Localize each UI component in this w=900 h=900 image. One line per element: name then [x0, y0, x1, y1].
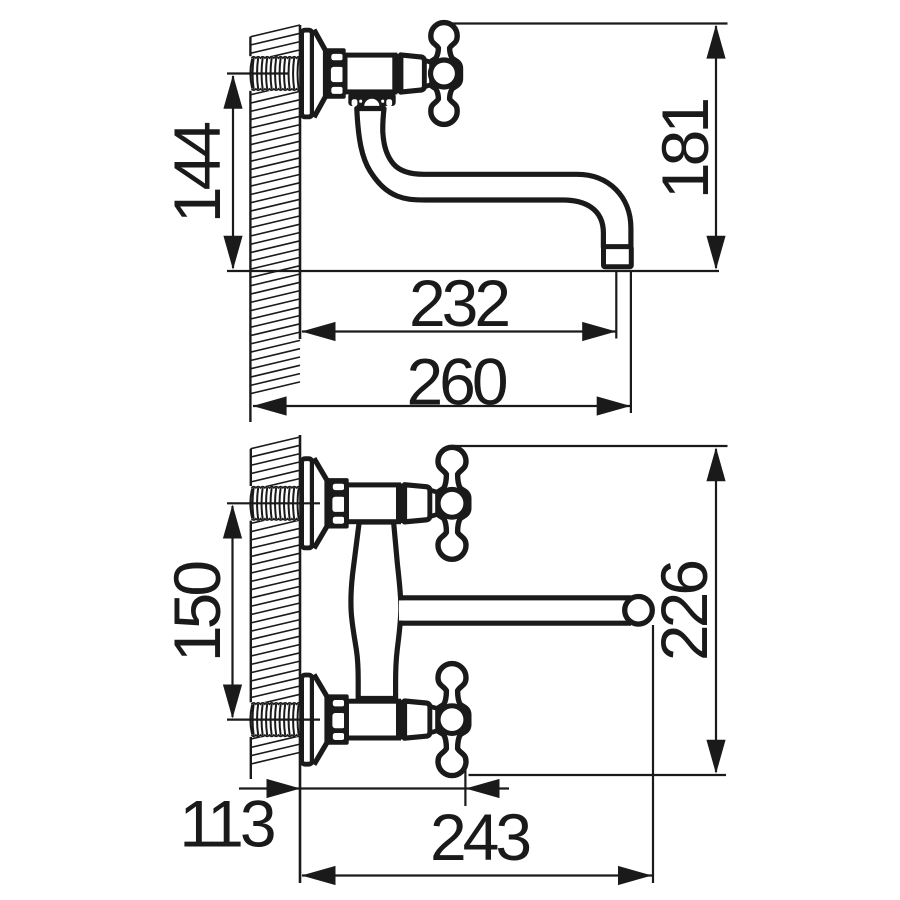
top view valve: packing ring: [394, 54, 401, 94]
spout S-tube (top view): [357, 109, 631, 248]
bottom view upper valve: valve body: [347, 485, 399, 522]
aerator (top view spout outlet): [604, 247, 632, 267]
dimension 260 left arrow: [253, 396, 287, 415]
bottom view lower valve: connection nut: [326, 694, 349, 744]
bottom view upper valve: escutcheon: [302, 458, 327, 548]
dimension 113 line: [239, 787, 509, 789]
dimension 232 right arrow: [582, 322, 616, 341]
top view valve: connection nut: [324, 48, 346, 98]
svg-text:113: 113: [179, 786, 274, 860]
dimension 232 line: [302, 330, 616, 332]
dimension 181 bottom arrow: [706, 236, 725, 270]
threaded inlet pipe (top view): [248, 56, 303, 91]
extension line: handle plane (vertical): [464, 768, 466, 806]
bottom view lower valve: handle stem: [430, 706, 438, 732]
bottom view lower valve: valve body: [347, 701, 399, 738]
bottom view lower valve: packing ring: [398, 700, 405, 740]
wall hatching (top view): [250, 25, 300, 394]
extension line: spout centre (vertical): [615, 271, 617, 339]
dimension 144 top arrow: [223, 75, 242, 109]
dimension 113 left arrow (outside): [267, 779, 301, 798]
dimension 113 right arrow (outside): [466, 779, 500, 798]
svg-text:226: 226: [647, 562, 721, 661]
dimension 144 line: [232, 76, 234, 268]
spout arm (bottom view): [399, 598, 631, 623]
dimension 181 line: [715, 26, 717, 268]
bottom view upper valve: cross handle: [430, 447, 469, 559]
top view valve: escutcheon: [302, 30, 326, 118]
wall hatching (bottom view): [250, 437, 300, 764]
svg-text:181: 181: [648, 100, 722, 199]
svg-text:260: 260: [406, 344, 506, 418]
top view valve: cross handle: [425, 23, 461, 125]
bottom view upper valve: handle stem: [430, 490, 438, 516]
extension line: lower inlet centre: [227, 718, 320, 720]
top view valve: bonnet: [401, 55, 425, 92]
bottom view upper valve: connection nut: [326, 478, 349, 528]
dimension 150 top arrow: [223, 505, 242, 539]
svg-text:150: 150: [160, 562, 234, 662]
extension line: faucet bottom (bottom view): [469, 774, 727, 776]
dimension 150 line: [231, 506, 233, 717]
svg-text:232: 232: [409, 266, 508, 340]
bottom view upper valve: bonnet: [405, 485, 431, 522]
dimension 226 bottom arrow: [706, 740, 725, 774]
dimension 144 bottom arrow: [223, 236, 242, 270]
threaded inlet pipe (bottom view upper): [248, 486, 303, 521]
top view valve: valve body: [345, 55, 395, 92]
wall face edge (bottom view): [299, 435, 302, 883]
bottom view lower valve: cross handle: [430, 664, 469, 776]
wall back edge (top view): [249, 37, 251, 422]
wall face edge (top view): [299, 25, 302, 339]
dimension 150 bottom arrow: [223, 685, 242, 719]
dimension 181 top arrow: [706, 25, 725, 59]
extension line: upper inlet centre: [227, 502, 320, 504]
extension line: spout outlet level: [227, 270, 719, 272]
faucet body column (bottom view): [351, 522, 401, 699]
top view valve: handle stem: [425, 60, 432, 86]
wall back edge (bottom view): [250, 449, 252, 779]
dimension 232 left arrow: [302, 322, 336, 341]
extension line: inlet centre (top view): [227, 72, 289, 74]
svg-text:144: 144: [160, 123, 234, 223]
svg-text:243: 243: [430, 800, 529, 874]
extension line: faucet top (bottom view): [452, 445, 728, 447]
dimension 260 line: [253, 405, 630, 407]
extension line: handle top (top view): [452, 22, 728, 24]
threaded inlet pipe (bottom view lower): [248, 702, 303, 737]
dimension 243 left arrow: [302, 866, 336, 885]
dimension 226 top arrow: [706, 447, 725, 481]
dimension 243 right arrow: [618, 866, 652, 885]
extension line: spout outer edge (vertical): [630, 271, 632, 413]
bottom view lower valve: bonnet: [405, 701, 431, 738]
dimension 260 right arrow: [597, 396, 631, 415]
dimension 243 line: [302, 874, 652, 876]
bottom view lower valve: escutcheon: [302, 675, 327, 765]
spout coupling nut (top view): [348, 93, 395, 110]
bottom view upper valve: packing ring: [398, 484, 405, 524]
dimension 226 line: [715, 449, 717, 772]
spout arm ball tip (bottom view): [625, 597, 653, 625]
extension line: spout tip (vertical): [652, 625, 654, 883]
